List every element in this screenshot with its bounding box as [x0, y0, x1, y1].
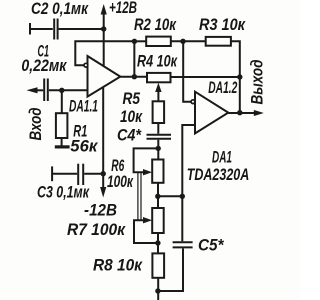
wire DA1.1 output to R4	[120, 76, 147, 78]
node feedback/R2 junction	[132, 39, 137, 44]
capacitor C1 plates	[43, 79, 45, 102]
svg-text:R2 10к: R2 10к	[134, 16, 177, 34]
wire input lead	[36, 89, 43, 91]
wire C2 left lead	[30, 28, 53, 30]
arrow R6 wiper	[143, 169, 152, 175]
mechanical coupling R6-R7 wipers	[137, 172, 139, 220]
svg-text:R8 10к: R8 10к	[93, 257, 144, 275]
node R6/R7 junction	[155, 194, 160, 199]
svg-text:Выход: Выход	[249, 60, 267, 105]
node C2/+12V junction	[101, 26, 106, 31]
svg-text:C4*: C4*	[117, 127, 142, 145]
op-amp DA1.1 inverting input bubble	[84, 63, 88, 67]
wire R4 right lead to output rail	[171, 76, 240, 78]
op-amp DA1.2	[195, 92, 228, 134]
arrow R7 wiper	[143, 217, 152, 223]
wire C3 left lead	[52, 173, 77, 175]
svg-text:С3 0,1мк: С3 0,1мк	[37, 184, 90, 202]
capacitor C5 plates	[173, 241, 193, 243]
svg-text:DA1.2: DA1.2	[208, 79, 237, 97]
node C4/R6 wiper junction	[156, 146, 161, 151]
svg-text:R4 10к: R4 10к	[137, 53, 178, 71]
wire C5 bottom link	[158, 249, 183, 292]
svg-text:0,22мк: 0,22мк	[21, 57, 67, 75]
svg-text:+12В: +12В	[109, 0, 137, 17]
svg-text:TDA2320A: TDA2320A	[187, 166, 250, 184]
op-amp DA1.2 inverting input bubble	[191, 100, 195, 104]
resistor R3	[206, 37, 231, 46]
svg-text:56к: 56к	[70, 138, 99, 156]
node R4/output rail junction	[237, 74, 242, 79]
resistor R2	[146, 37, 171, 46]
svg-text:DA1: DA1	[212, 149, 232, 167]
wire R1 bottom lead	[61, 138, 63, 146]
svg-text:R5: R5	[123, 90, 141, 108]
wire C1 to DA1.1 non-inverting input	[49, 89, 88, 91]
svg-text:Вход: Вход	[27, 108, 45, 141]
output terminal arrow	[254, 110, 264, 116]
capacitor C2 plates	[53, 19, 55, 40]
wire DA1.2 non-inverting input to R6/R7 node	[182, 125, 195, 241]
svg-text:-12В: -12В	[84, 202, 117, 220]
node DA1.2 non-inverting rail / C5 junction	[180, 194, 185, 199]
wire R1 top lead	[61, 90, 63, 113]
wire DA1.1 feedback (inverting input to output node)	[75, 41, 134, 65]
node C3/-12V junction	[101, 171, 106, 176]
resistor R1	[56, 113, 68, 138]
wire C2 right lead to +12V rail	[59, 28, 104, 30]
svg-text:10к: 10к	[120, 108, 143, 126]
capacitor C4 plates	[147, 134, 172, 136]
power -12V arrow	[100, 187, 106, 198]
op-amp DA1.1	[88, 56, 121, 97]
wire R6 wiper tap	[134, 148, 159, 172]
wire DA1.2 output	[228, 112, 255, 114]
wire R2 left lead	[134, 40, 146, 42]
svg-text:С2 0,1мк: С2 0,1мк	[31, 0, 89, 18]
resistor R8	[152, 253, 164, 277]
wire R7 bottom lead	[157, 233, 159, 253]
input terminal arrow	[27, 87, 38, 93]
ground	[55, 145, 70, 148]
resistor R4	[147, 73, 171, 82]
svg-text:100к: 100к	[107, 173, 134, 191]
wire +12V rail	[103, 13, 105, 66]
resistor R7	[152, 208, 164, 233]
wire R3 right lead to output rail	[231, 41, 240, 112]
svg-text:DA1.1: DA1.1	[69, 98, 98, 116]
arrow R4 wiper	[155, 83, 161, 92]
wire R6/R7 node to DA1.2 input rail	[158, 195, 183, 197]
wire R8 bottom lead	[157, 278, 159, 300]
svg-text:R7 100к: R7 100к	[67, 221, 127, 239]
node R2/R3/DA1.2 input junction	[180, 39, 185, 44]
node output junction	[237, 110, 242, 115]
svg-text:C5*: C5*	[198, 237, 225, 255]
wire R2 right lead to node	[171, 40, 206, 42]
node R7/R8 junction	[155, 240, 160, 245]
wire DA1.1 -12V power pin down	[102, 87, 104, 188]
resistor R6	[152, 160, 163, 183]
node DA1.1 output junction	[132, 74, 137, 79]
wire R6 bottom lead	[157, 183, 159, 208]
node R8/C5 junction	[155, 288, 160, 293]
capacitor C3 terminal bar	[51, 166, 53, 181]
svg-text:R3 10к: R3 10к	[199, 16, 246, 34]
wire DA1.2 inverting input rail	[183, 41, 191, 101]
wire C4 bottom lead	[157, 140, 159, 160]
capacitor C2 terminal bar	[29, 23, 31, 35]
wire R5 bottom lead	[157, 123, 159, 134]
wire R7 wiper tap to bottom	[134, 220, 158, 243]
node C1/R1 junction	[59, 88, 64, 93]
resistor R5	[153, 101, 165, 123]
power +12V arrow	[101, 4, 107, 15]
capacitor C3 plates	[77, 164, 79, 185]
wire output node up to feedback node	[133, 41, 135, 76]
wire C3 right lead to -12V rail	[84, 173, 103, 175]
wire R4 wiper arm	[157, 91, 159, 102]
